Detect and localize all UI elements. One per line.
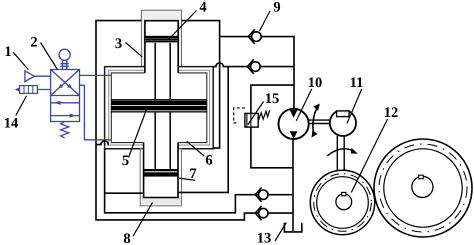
svg-text:10: 10 — [308, 75, 323, 91]
pipe: bottom cylinder left port — [105, 192, 144, 194]
pipe: bottom cylinder right port riser — [178, 67, 228, 193]
pipe: lower chamber line with jump — [96, 141, 109, 145]
pipe: frame left (top cyl to bottom loop) — [96, 21, 259, 220]
leader line to cylinder 6 — [187, 141, 205, 156]
air pipe to upper chamber — [80, 74, 112, 76]
check valve suction upper — [255, 188, 268, 202]
bottom cylinder housing 8 — [140, 143, 181, 206]
leader line to coupling 11 — [347, 89, 362, 124]
cylinder block: top cylinder housing 3 — [141, 10, 181, 73]
motor shaft — [309, 120, 330, 123]
svg-text:8: 8 — [123, 231, 130, 245]
check valve 9b — [247, 59, 260, 74]
relief valve 15 — [234, 108, 270, 127]
pipe: check valve outputs to motor column — [268, 195, 293, 213]
leader line to piston 7 — [179, 178, 195, 180]
check valve suction lower — [255, 206, 268, 220]
leader line to valve 2 — [41, 43, 58, 70]
air pipe to lower chamber — [80, 85, 112, 140]
svg-text:14: 14 — [4, 116, 19, 132]
wheel small 12 — [310, 170, 374, 234]
svg-text:2: 2 — [30, 35, 37, 51]
hydraulic motor 10 — [279, 109, 309, 139]
pipe: left wall drop to suction check valve — [105, 149, 259, 213]
pipe: frame top right — [182, 21, 220, 149]
valve 2 return spring — [61, 122, 69, 138]
exhaust silencer 14 — [15, 86, 51, 94]
leader line to relief valve 15 — [248, 102, 264, 125]
leader line to tank 13 — [275, 223, 286, 242]
svg-text:12: 12 — [384, 105, 399, 121]
wheel large — [374, 139, 472, 237]
svg-text:13: 13 — [257, 231, 272, 245]
svg-text:9: 9 — [273, 0, 280, 15]
piston 5 — [111, 99, 207, 112]
tank 13 — [284, 223, 301, 232]
svg-text:5: 5 — [122, 153, 129, 169]
svg-text:11: 11 — [350, 75, 364, 91]
main cylinder bore 6 — [111, 67, 207, 143]
leader line to check valve 9 — [260, 11, 271, 31]
pipe: check valve 9 upper line — [220, 37, 294, 109]
directional control valve 2 body — [15, 49, 112, 140]
svg-text:15: 15 — [265, 91, 280, 107]
svg-text:3: 3 — [115, 36, 122, 52]
check valve 9a — [248, 29, 261, 44]
leader line to motor 10 — [296, 89, 312, 121]
leader line to cylinder wall 3 — [126, 43, 143, 57]
valve 2 push-knob actuator — [59, 49, 70, 69]
piston 4 — [145, 36, 178, 43]
coupling 11 — [330, 107, 356, 136]
pipe: relief valve bypass — [251, 85, 294, 168]
shaft rotation arrow — [312, 104, 320, 138]
air supply nozzle 1 — [25, 71, 51, 82]
piston rod — [155, 43, 170, 169]
svg-text:4: 4 — [199, 0, 206, 15]
pipe: motor to tank column — [292, 139, 294, 231]
leader line to piston 4 — [169, 11, 197, 40]
svg-text:6: 6 — [205, 153, 212, 169]
drive shaft rotation arrow — [327, 148, 358, 156]
leader line to silencer 14 — [16, 96, 27, 116]
piston 7 — [144, 169, 178, 177]
leader line to wheel 12 — [351, 119, 387, 193]
leader line to piston 5 — [129, 109, 147, 158]
valve 2 crossed-flow position (X arrows) — [51, 70, 80, 96]
main cylinder housing (outer) — [105, 67, 214, 149]
leader line to nozzle 1 — [13, 52, 28, 70]
pipe: second line with jump over frame edge — [213, 63, 294, 67]
leader line to cylinder 8 — [133, 202, 153, 236]
vertical drive shaft — [337, 136, 344, 171]
valve 2 parallel-flow position (straight arrows) — [51, 101, 80, 118]
svg-text:1: 1 — [4, 44, 11, 60]
svg-text:7: 7 — [189, 166, 196, 182]
